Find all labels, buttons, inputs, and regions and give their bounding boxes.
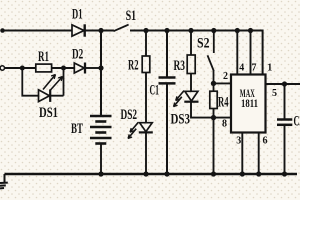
svg-text:6: 6 <box>263 136 268 147</box>
junction pin7 top <box>248 28 253 33</box>
svg-text:DS2: DS2 <box>121 107 138 123</box>
node IN- terminal <box>0 66 4 70</box>
wire pin 7 <box>250 31 252 76</box>
svg-text:2: 2 <box>223 71 228 82</box>
junction pin3-rail <box>240 171 245 176</box>
wire ground rail <box>5 173 298 176</box>
svg-text:R2: R2 <box>128 58 139 74</box>
svg-text:DS1: DS1 <box>39 105 58 121</box>
junction R2 top <box>143 28 148 33</box>
svg-text:3: 3 <box>236 136 241 147</box>
svg-text:R4: R4 <box>218 95 229 111</box>
svg-text:7: 7 <box>252 62 257 73</box>
ground <box>0 174 8 188</box>
wire R2 branch top <box>145 31 147 57</box>
wire battery vertical <box>100 31 102 117</box>
svg-text:BT: BT <box>71 121 83 137</box>
junction pin4 top <box>235 28 240 33</box>
wire D1 to S1 <box>85 30 114 32</box>
wire R3 to DS3 <box>190 74 192 92</box>
switch S2 <box>208 31 214 92</box>
junction R4-pin8 wire <box>211 115 216 120</box>
svg-text:R1: R1 <box>38 49 49 65</box>
wire R3 branch top <box>190 31 192 56</box>
wire R2 to DS2 <box>145 73 147 123</box>
junction C2 tap <box>282 81 287 86</box>
wire pin 3 <box>241 133 243 176</box>
LED DS1 <box>39 75 63 102</box>
junction C1-rail <box>164 171 169 176</box>
junction loop left <box>20 66 25 71</box>
svg-text:5: 5 <box>272 88 277 99</box>
wire battery to rail <box>100 144 102 176</box>
resistor R4 <box>210 91 217 108</box>
junction C2-rail <box>282 171 287 176</box>
svg-text:S1: S1 <box>126 8 137 24</box>
junction DS2-rail <box>143 171 148 176</box>
wire DS3 to pin8 <box>191 102 231 118</box>
svg-text:1811: 1811 <box>241 96 258 110</box>
wire input to D1 <box>2 30 73 32</box>
junction C1 top <box>164 28 169 33</box>
junction battery-rail <box>98 171 103 176</box>
junction R4-rail <box>211 171 216 176</box>
capacitor C1 <box>159 31 176 176</box>
wire D2 to battery node <box>85 67 101 69</box>
op-amp U1 MAX1811 <box>231 75 266 133</box>
junction pin2 branch <box>211 81 216 86</box>
svg-text:D1: D1 <box>72 7 83 23</box>
resistor R3 <box>187 55 195 74</box>
wire R1 to D2 <box>52 67 75 69</box>
diode D1 <box>72 24 85 36</box>
wire DS1 loop <box>22 68 63 96</box>
wire pin 5 output <box>266 83 301 85</box>
svg-text:8: 8 <box>222 119 227 130</box>
svg-text:C2: C2 <box>294 114 301 130</box>
resistor R2 <box>142 56 150 73</box>
svg-text:R3: R3 <box>174 58 186 74</box>
svg-text:D2: D2 <box>72 47 83 63</box>
wire pin 6 <box>258 133 260 176</box>
wire pin 4 <box>236 31 238 76</box>
switch S1 <box>114 25 129 32</box>
battery BT <box>90 116 112 144</box>
diode D2 <box>74 63 85 74</box>
junction pin6-rail <box>256 171 261 176</box>
svg-text:4: 4 <box>239 62 244 73</box>
junction battery top <box>98 28 103 33</box>
svg-text:DS3: DS3 <box>171 112 191 128</box>
wire top rail S1 to pin1 corner <box>130 31 263 75</box>
junction S2 top <box>211 28 216 33</box>
svg-text:1: 1 <box>267 62 272 73</box>
junction loop right <box>61 66 66 71</box>
svg-text:C1: C1 <box>150 82 160 98</box>
node IN+ terminal <box>0 28 5 33</box>
LED DS2 <box>128 122 153 138</box>
junction R3 top <box>188 28 193 33</box>
junction D2-battery <box>98 65 103 70</box>
wire DS2 to rail <box>145 132 147 175</box>
wire to pin 2 <box>214 82 232 84</box>
resistor R1 <box>36 64 52 72</box>
svg-text:S2: S2 <box>197 35 210 51</box>
wire R4 to rail <box>213 109 215 176</box>
LED DS3 <box>174 91 199 107</box>
wire input2 <box>4 67 36 69</box>
capacitor C2 <box>277 84 292 175</box>
